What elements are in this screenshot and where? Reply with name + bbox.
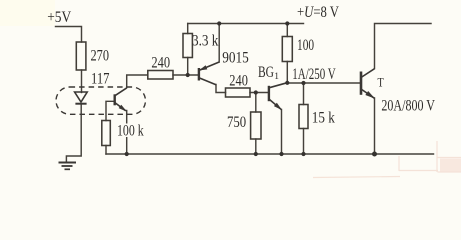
- wire BG1 emitter down: [281, 110, 283, 155]
- svg-text:1A/250 V: 1A/250 V: [292, 66, 336, 83]
- wire 750 top lead: [255, 93, 257, 113]
- svg-text:T: T: [378, 75, 384, 90]
- transistor Q 9015 (PNP): [199, 62, 219, 85]
- resistor R 240b: [226, 88, 251, 97]
- wire node to T base: [287, 82, 360, 84]
- wire 240b right to BG1 base: [250, 92, 268, 94]
- optocoupler U 117 dashed body: [56, 87, 146, 114]
- wire LED cathode to ground: [66, 104, 81, 162]
- wire 9015 collector down to 240b: [216, 85, 226, 93]
- wire T emitter down: [374, 98, 376, 154]
- svg-text:9015: 9015: [222, 49, 249, 66]
- wire 750 bottom lead: [255, 139, 257, 154]
- transistor Q T (NPN power): [361, 69, 375, 99]
- wire photo collector up and to 240: [127, 75, 148, 88]
- node photo emitter rail: [125, 152, 129, 156]
- node rail-100: [285, 21, 289, 25]
- wire 3.3k bottom lead: [187, 58, 189, 76]
- paper background: [0, 0, 461, 183]
- faint pink watermark lines bottom right: [313, 141, 461, 178]
- node 750 rail: [254, 152, 258, 156]
- wire 270 bottom to LED: [81, 70, 83, 93]
- wire 100k bottom lead: [105, 146, 107, 155]
- svg-text:117: 117: [91, 70, 110, 87]
- svg-text:240: 240: [151, 55, 170, 72]
- LED inside optocoupler: [75, 92, 88, 104]
- resistor R 750: [251, 112, 261, 139]
- svg-text:750: 750: [227, 114, 246, 131]
- node BG1 emitter rail: [279, 152, 283, 156]
- node rail-9015: [217, 21, 221, 25]
- wire top rail: [188, 23, 304, 25]
- wire +5V lead: [56, 27, 82, 43]
- node T emitter rail: [372, 152, 377, 157]
- resistor R 270: [76, 42, 86, 70]
- wire photo emitter down: [126, 111, 128, 155]
- svg-text:15 k: 15 k: [312, 110, 335, 127]
- transistor Q BG1 (NPN): [269, 83, 287, 110]
- svg-text:100: 100: [297, 37, 314, 54]
- node 15k top: [301, 81, 305, 85]
- svg-text:240: 240: [229, 72, 248, 89]
- phototransistor inside optocoupler: [115, 88, 127, 111]
- resistor R 100: [282, 37, 292, 62]
- white gap behind 100k label: [116, 124, 146, 138]
- resistor R 240a: [148, 71, 173, 80]
- svg-text:100 k: 100 k: [117, 122, 144, 139]
- wire 15k top lead: [303, 83, 305, 105]
- node 240b-750-BG1: [254, 90, 258, 94]
- resistor R 3.3k: [183, 34, 192, 58]
- wire 100k top lead from photo base: [106, 101, 115, 120]
- svg-text:3.3 k: 3.3 k: [192, 32, 219, 49]
- wire 100 bottom lead: [286, 62, 288, 83]
- svg-text:20A/800 V: 20A/800 V: [381, 97, 435, 114]
- wire 240a right to 9015 base: [173, 74, 198, 76]
- svg-text:BG: BG: [258, 64, 274, 81]
- node BG1 collector: [285, 81, 289, 85]
- resistor R 100k: [102, 121, 111, 146]
- wire 3.3k top lead: [187, 24, 189, 34]
- wire 100 top lead: [286, 24, 288, 37]
- svg-text:270: 270: [91, 48, 110, 65]
- resistor R 15k: [299, 105, 308, 129]
- wire 15k bottom lead: [303, 129, 305, 155]
- wire T collector up and right: [375, 24, 432, 69]
- ground symbol: [59, 163, 77, 170]
- node 15k rail: [301, 152, 305, 156]
- svg-text:+U=8 V: +U=8 V: [297, 4, 340, 21]
- svg-text:+5V: +5V: [47, 9, 72, 26]
- svg-text:1: 1: [274, 72, 279, 82]
- wire bottom rail: [106, 153, 434, 155]
- node 3.3k-240-base: [186, 73, 190, 77]
- wire 9015 emitter to top rail: [218, 24, 220, 63]
